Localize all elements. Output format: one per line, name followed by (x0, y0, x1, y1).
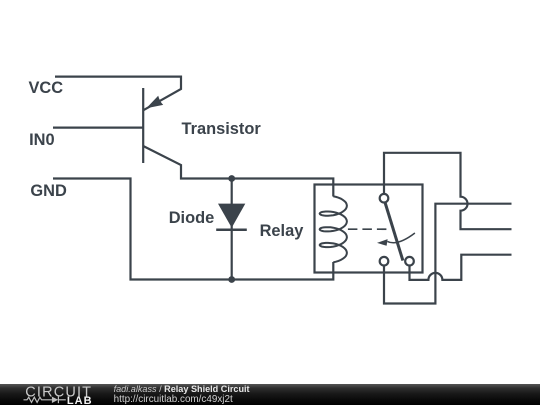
relay K1 common pin circle (380, 194, 389, 203)
label GND (30, 183, 66, 199)
label Diode (169, 210, 215, 226)
label Transistor (182, 121, 261, 137)
transistor Q1 emitter arrow (146, 96, 163, 109)
wire common pin to terminal 2 with hop (384, 153, 512, 229)
wire NC pin to terminal 1 (384, 204, 512, 304)
transistor Q1 base bar (142, 88, 144, 163)
wire VCC to transistor emitter (55, 77, 181, 111)
wire IN0 to base (53, 126, 143, 128)
svg-text:LAB: LAB (67, 395, 93, 405)
relay K1 actuation arrow (387, 233, 415, 243)
footer credit line (114, 385, 250, 394)
relay K1 NO pin circle (405, 257, 414, 266)
label VCC (29, 80, 64, 96)
transistor Q1 collector and wire to node A (143, 146, 333, 197)
footer bar (0, 384, 540, 405)
relay K1 coil (320, 196, 347, 262)
label IN0 (29, 132, 55, 148)
relay K1 switch blade (385, 203, 403, 261)
relay K1 NC pin circle (380, 257, 389, 266)
relay K1 body box (315, 185, 423, 273)
relay K1 dashed link (348, 228, 390, 230)
node B junction dot (228, 276, 235, 283)
CircuitLab logo (0, 384, 110, 405)
wire GND to node B (53, 179, 333, 280)
diode D1 vertical wire (231, 179, 233, 280)
logo waveform and diode icon (24, 396, 66, 403)
diode D1 triangle (218, 204, 245, 228)
footer url line (114, 395, 233, 405)
wire NO pin to terminal 3 with hop (410, 255, 512, 280)
label Relay (260, 223, 304, 239)
node A junction dot (228, 175, 235, 182)
diode D1 cathode bar (216, 229, 247, 232)
